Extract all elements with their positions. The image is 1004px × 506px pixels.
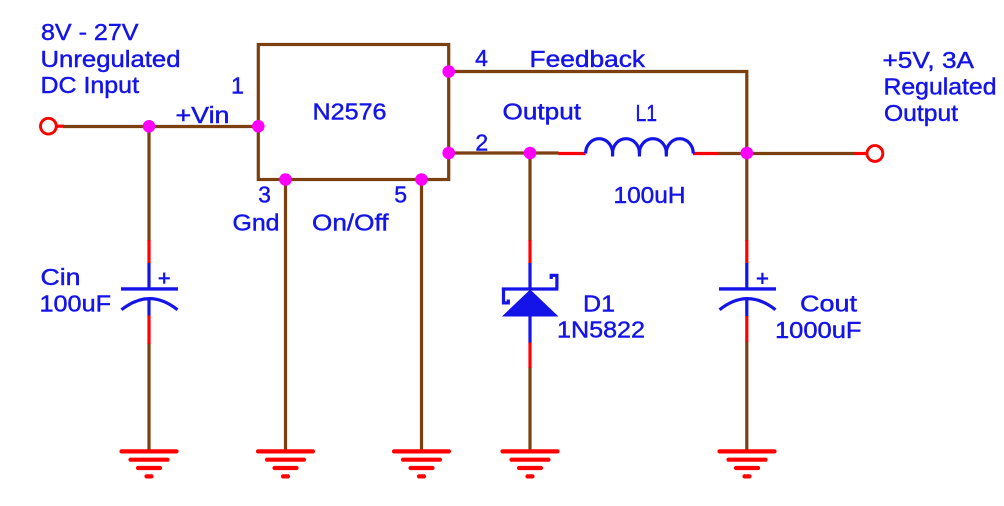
wire Cin branch upper [147, 127, 150, 242]
svg-text:2: 2 [475, 130, 488, 156]
inductor L1 [586, 139, 693, 157]
svg-text:Output: Output [884, 100, 959, 126]
svg-text:D1: D1 [583, 291, 615, 317]
terminal input [41, 118, 57, 134]
svg-text:1000uF: 1000uF [775, 317, 862, 343]
wire Cin branch lower [147, 343, 150, 452]
node Cout junction [741, 147, 754, 160]
node pin3 [279, 173, 292, 186]
svg-text:DC Input: DC Input [41, 72, 140, 98]
svg-text:+5V, 3A: +5V, 3A [883, 47, 975, 73]
pin stub input terminal [56, 125, 64, 128]
wire Cout branch upper [745, 153, 748, 241]
pin stub Cout bottom [745, 316, 748, 343]
pin stub L1 left [559, 152, 586, 155]
svg-text:8V - 27V: 8V - 27V [41, 19, 139, 45]
node input junction [143, 120, 156, 133]
node diode junction [524, 147, 537, 160]
svg-text:Cout: Cout [800, 291, 858, 317]
terminal output [867, 146, 883, 162]
wire pin2 output [449, 151, 559, 154]
capacitor Cout [719, 263, 776, 316]
svg-text:L1: L1 [636, 100, 658, 126]
svg-text:100uF: 100uF [40, 291, 112, 317]
svg-text:Gnd: Gnd [233, 210, 280, 236]
wire pin3 to ground [284, 180, 287, 452]
svg-text:Feedback: Feedback [530, 46, 646, 72]
svg-text:Cin: Cin [41, 264, 81, 290]
svg-text:100uH: 100uH [614, 182, 686, 208]
wire diode branch upper [528, 153, 531, 241]
wire pin5 to ground [420, 180, 423, 452]
svg-text:Unregulated: Unregulated [41, 46, 181, 72]
svg-text:1: 1 [231, 73, 244, 99]
wire diode branch lower [528, 367, 531, 452]
diode D1 1N5822 schottky [502, 263, 559, 343]
pin stub output terminal [855, 152, 867, 155]
pin stub L1 right [693, 152, 719, 155]
svg-text:Output: Output [503, 99, 582, 125]
node pin4 [442, 65, 455, 78]
wire input horizontal [63, 125, 257, 128]
pin stub D1 top [528, 240, 531, 264]
ground pin5 [394, 451, 449, 476]
svg-text:1N5822: 1N5822 [557, 316, 645, 342]
svg-text:3: 3 [258, 182, 271, 208]
pin stub Cin bottom [147, 315, 150, 344]
pin stub Cin top [147, 240, 150, 264]
ground Cin [122, 451, 177, 476]
pin stub D1 bottom [528, 342, 531, 368]
svg-text:4: 4 [475, 45, 488, 71]
IC U1 N2576 regulator body [258, 45, 448, 180]
wire feedback [449, 72, 747, 154]
node pin1 [252, 120, 265, 133]
node pin2 [442, 147, 455, 160]
svg-text:+Vin: +Vin [176, 102, 230, 128]
node pin5 [415, 173, 428, 186]
ground Cout [720, 451, 775, 476]
ground pin3 [258, 451, 313, 476]
svg-text:5: 5 [394, 182, 407, 208]
wire Cout branch lower [745, 341, 748, 452]
pin stub Cout top [745, 240, 748, 264]
svg-text:N2576: N2576 [313, 99, 387, 125]
wire inductor to output terminal [718, 152, 855, 155]
svg-text:On/Off: On/Off [312, 210, 389, 236]
ground D1 [503, 451, 558, 476]
capacitor Cin [121, 263, 178, 316]
svg-text:Regulated: Regulated [884, 74, 997, 100]
